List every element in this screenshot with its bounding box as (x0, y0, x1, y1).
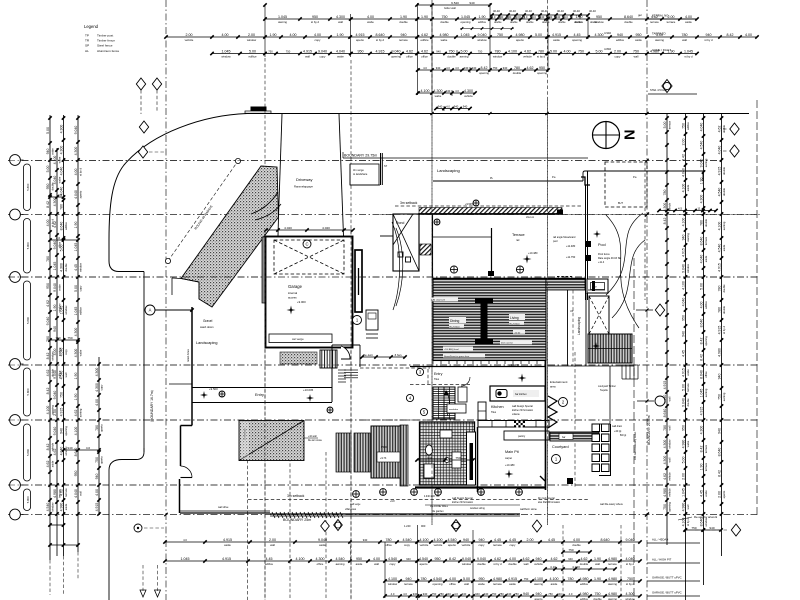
svg-text:Steel fence: Steel fence (97, 44, 113, 48)
svg-text:4.0: 4.0 (86, 446, 91, 450)
svg-text:A: A (149, 308, 152, 313)
svg-text:Entertainment: Entertainment (550, 380, 568, 384)
svg-text:double: double (722, 166, 726, 175)
svg-text:1.240: 1.240 (404, 524, 411, 528)
svg-text:4.100: 4.100 (681, 218, 685, 227)
svg-text:rail angle Museboard: rail angle Museboard (553, 236, 576, 239)
svg-text:750: 750 (59, 392, 63, 398)
grid overlay y160 (8, 160, 722, 162)
svg-text:wabe: wabe (441, 38, 448, 42)
svg-text:750: 750 (691, 526, 696, 530)
svg-text:940: 940 (406, 557, 411, 561)
svg-text:wall: wall (305, 55, 310, 59)
svg-text:4.915: 4.915 (699, 407, 703, 416)
svg-text:Courtyard: Courtyard (552, 445, 569, 449)
svg-text:750: 750 (499, 592, 504, 596)
svg-text:940: 940 (363, 538, 368, 542)
landscaping rot label (577, 317, 581, 335)
svg-text:8.640: 8.640 (59, 222, 63, 231)
svg-text:4.62: 4.62 (523, 557, 530, 561)
svg-text:4.100: 4.100 (434, 538, 443, 542)
svg-text:40-40: 40-40 (509, 9, 516, 13)
svg-text:4.45: 4.45 (548, 538, 555, 542)
bottom dim line y581 (383, 577, 641, 586)
garage east pier (355, 250, 362, 312)
svg-text:4.980: 4.980 (59, 503, 63, 512)
right top labels line2 (652, 32, 666, 36)
svg-text:4.5: 4.5 (678, 207, 683, 211)
svg-text:Rate angle 49.03 SE: Rate angle 49.03 SE (598, 257, 621, 260)
svg-text:GARAGE / BUTT uPVC: GARAGE / BUTT uPVC (652, 576, 682, 580)
svg-text:4.540: 4.540 (433, 577, 442, 581)
right top labels line1 (648, 14, 697, 20)
svg-text:awning: awning (686, 233, 690, 242)
svg-text:aperto: aperto (420, 562, 428, 566)
svg-text:4.00: 4.00 (46, 220, 50, 227)
svg-text:4.62: 4.62 (581, 557, 588, 561)
svg-text:940: 940 (454, 105, 459, 109)
kitchen wall left (477, 427, 479, 492)
svg-text:Gravel: Gravel (203, 319, 213, 323)
driveway left edge (278, 114, 282, 236)
deck open dashes (557, 276, 572, 278)
svg-text:940: 940 (557, 592, 562, 596)
svg-text:5.800: 5.800 (26, 388, 30, 395)
left bench column (478, 402, 486, 420)
svg-text:copy: copy (320, 55, 327, 59)
svg-text:4.00: 4.00 (53, 349, 57, 356)
left dim line x99 (95, 357, 104, 516)
svg-text:wall: wall (524, 562, 529, 566)
bottom left diamond (134, 524, 164, 532)
svg-text:4.100: 4.100 (717, 222, 721, 231)
svg-text:940: 940 (464, 66, 469, 70)
gravel bank hatch (181, 166, 279, 307)
right dim mid row (657, 207, 717, 213)
hatch strip left of bath (400, 425, 408, 486)
right dim line x667 (663, 113, 672, 545)
legend block (84, 24, 119, 53)
grid line A y514 (8, 514, 757, 516)
west wall upper (191, 307, 193, 426)
svg-text:double: double (447, 55, 456, 59)
svg-text:vehicle: vehicle (464, 94, 473, 98)
setout line x351 (350, 60, 352, 600)
svg-text:750: 750 (493, 66, 498, 70)
svg-text:4.040: 4.040 (74, 190, 78, 199)
svg-text:double: double (558, 21, 566, 24)
garage door circle (303, 240, 311, 248)
svg-text:awning: awning (704, 158, 708, 167)
svg-text:Re-Timber: Re-Timber (450, 325, 461, 328)
vertical connector x490 (488, 3, 491, 72)
bottom dim line y596 (383, 592, 641, 600)
verge step (350, 164, 380, 185)
svg-text:1.90: 1.90 (479, 15, 486, 19)
svg-text:940: 940 (717, 428, 721, 434)
setout line x621 bottom (620, 525, 622, 600)
garage stairs paving (280, 352, 317, 364)
svg-text:4.915: 4.915 (717, 263, 721, 272)
svg-text:9.040: 9.040 (53, 427, 57, 436)
svg-text:3m setback: 3m setback (400, 201, 418, 205)
svg-text:4.980: 4.980 (608, 557, 617, 561)
svg-text:aside: aside (509, 582, 516, 586)
svg-text:wall/born stone: wall/born stone (520, 508, 537, 511)
svg-text:750: 750 (497, 33, 503, 37)
svg-text:940: 940 (706, 33, 712, 37)
svg-text:4.0: 4.0 (446, 105, 450, 109)
svg-text:terrace: terrace (64, 488, 68, 497)
setback label bottom (287, 494, 305, 498)
svg-text:950: 950 (356, 557, 362, 561)
svg-text:3 fan: 3 fan (395, 353, 402, 357)
svg-text:940: 940 (540, 15, 545, 19)
porch dim (360, 353, 406, 359)
svg-text:1.90: 1.90 (270, 33, 277, 37)
svg-text:aperto: aperto (99, 424, 103, 432)
svg-text:4.300: 4.300 (699, 195, 703, 204)
svg-text:4.0: 4.0 (58, 193, 63, 197)
svg-text:4.980: 4.980 (580, 592, 589, 596)
svg-text:4.040: 4.040 (699, 123, 703, 132)
svg-text:wall: wall (270, 543, 275, 547)
deck top wall (433, 278, 585, 280)
svg-text:940: 940 (95, 474, 99, 480)
svg-text:office: office (449, 582, 456, 586)
svg-text:8.42: 8.42 (449, 557, 456, 561)
bubble TR (139, 121, 148, 133)
right bottom label rows (647, 538, 700, 597)
east corridor (568, 290, 587, 366)
west wall lower (179, 479, 181, 513)
svg-text:Re-Timber: Re-Timber (510, 322, 521, 325)
black block court (567, 478, 573, 484)
svg-text:4.915: 4.915 (303, 50, 312, 54)
svg-text:aperto: aperto (78, 190, 82, 198)
svg-text:9.040: 9.040 (681, 398, 685, 407)
lgt note (614, 430, 626, 437)
garage outline (266, 237, 353, 348)
svg-text:4.540: 4.540 (59, 371, 63, 380)
svg-text:4.00: 4.00 (222, 33, 229, 37)
top dim line y37 (164, 33, 758, 42)
svg-text:4.0: 4.0 (569, 592, 573, 596)
svg-text:opening: opening (479, 71, 489, 75)
svg-text:940: 940 (536, 592, 542, 596)
svg-text:750: 750 (568, 548, 573, 552)
living label (509, 314, 525, 334)
svg-text:edifice: edifice (78, 307, 82, 315)
svg-text:8.640: 8.640 (624, 15, 633, 19)
svg-text:aside: aside (224, 543, 231, 547)
svg-text:4.040: 4.040 (322, 226, 330, 230)
svg-text:aside: aside (64, 503, 68, 510)
svg-text:internal: internal (288, 291, 298, 295)
svg-text:1.90: 1.90 (337, 33, 344, 37)
svg-text:950: 950 (539, 66, 545, 70)
svg-text:edifice: edifice (64, 222, 68, 230)
svg-text:wall: wall (464, 582, 469, 586)
svg-text:opening: opening (391, 55, 401, 59)
gravel label (200, 319, 214, 329)
svg-text:double: double (590, 21, 598, 24)
bottom diamonds (321, 520, 542, 533)
svg-text:double: double (477, 562, 486, 566)
svg-text:2.00: 2.00 (527, 538, 534, 542)
svg-text:8.640: 8.640 (699, 370, 703, 379)
svg-text:awning: awning (78, 408, 82, 417)
svg-text:wall: wall (595, 562, 600, 566)
svg-text:double: double (686, 398, 690, 407)
grid overlay y365 (8, 364, 760, 366)
svg-text:Pond: Pond (396, 221, 404, 225)
svg-text:4.00: 4.00 (367, 15, 374, 19)
west boundary line (143, 272, 145, 453)
entry label2 (434, 372, 443, 381)
svg-text:4.540: 4.540 (717, 244, 721, 253)
svg-text:pantry: pantry (518, 434, 526, 438)
center small circles (406, 368, 427, 415)
svg-text:wabe: wabe (337, 55, 344, 59)
svg-text:window: window (477, 38, 487, 42)
svg-text:940: 940 (484, 592, 489, 596)
svg-text:opening: opening (704, 336, 708, 346)
svg-text:edifice: edifice (478, 20, 487, 24)
svg-text:4.100: 4.100 (420, 538, 429, 542)
svg-text:wabe: wabe (367, 20, 374, 24)
right dim line x685 (681, 113, 690, 600)
svg-text:750: 750 (442, 15, 448, 19)
terrace step hatch (420, 244, 431, 255)
svg-text:TARRAZO: TARRAZO (652, 32, 666, 36)
right top diamonds (723, 123, 739, 157)
garden line (169, 383, 192, 385)
top small vconnectors (444, 16, 520, 111)
svg-text:9.040: 9.040 (74, 126, 78, 135)
svg-text:terrace: terrace (650, 20, 659, 24)
svg-text:terrace: terrace (608, 562, 617, 566)
setback dashed bottom (248, 499, 590, 501)
garage door arc (341, 346, 350, 359)
svg-text:window: window (462, 562, 472, 566)
svg-text:5.00: 5.00 (59, 245, 63, 252)
right top labels line3 (652, 48, 672, 52)
deck lower ticks (433, 361, 545, 365)
svg-text:edifice: edifice (420, 38, 429, 42)
setback dashed top (395, 205, 583, 207)
svg-text:4.040: 4.040 (572, 565, 580, 569)
svg-text:1.045: 1.045 (684, 50, 693, 54)
svg-text:4.100: 4.100 (296, 557, 305, 561)
grid line D y365 (8, 364, 760, 366)
svg-text:double: double (574, 21, 582, 24)
svg-text:+9.8: +9.8 (390, 501, 395, 503)
bottom connector x385 (384, 542, 386, 598)
svg-text:900: 900 (421, 524, 426, 528)
svg-text:4.62: 4.62 (551, 557, 558, 561)
svg-text:double: double (572, 543, 581, 547)
under wall text rows2 (350, 495, 561, 507)
svg-text:boiler wall: boiler wall (444, 6, 456, 10)
top dim line y53 (210, 50, 698, 59)
svg-text:1.045: 1.045 (74, 243, 78, 252)
svg-text:wall: wall (682, 38, 687, 42)
svg-text:st by d: st by d (311, 20, 320, 24)
svg-text:4.00: 4.00 (509, 557, 516, 561)
svg-text:aperto: aperto (356, 38, 364, 42)
svg-text:9.040: 9.040 (53, 370, 57, 379)
svg-text:1.045: 1.045 (74, 307, 78, 316)
svg-text:940: 940 (709, 526, 714, 530)
svg-text:opening: opening (461, 20, 471, 24)
svg-text:780: 780 (663, 425, 667, 431)
svg-text:780: 780 (699, 220, 703, 226)
svg-text:Tequila: Tequila (600, 389, 608, 392)
svg-text:4.040: 4.040 (53, 176, 57, 185)
svg-text:940: 940 (469, 1, 474, 5)
svg-text:+10 wall: +10 wall (308, 436, 317, 438)
svg-text:office: office (385, 543, 392, 547)
svg-text:4.45: 4.45 (74, 264, 78, 271)
hatch square label (241, 422, 323, 459)
svg-text:copy: copy (390, 562, 397, 566)
shaft xbrace (589, 296, 609, 334)
pool label (593, 230, 621, 264)
grid line G y160 (8, 160, 722, 162)
bath tile block (420, 422, 475, 485)
svg-text:950: 950 (681, 315, 685, 321)
svg-text:opening: opening (667, 502, 671, 512)
svg-text:edifice: edifice (248, 55, 257, 59)
svg-text:750: 750 (286, 50, 291, 54)
left bottom arrows (140, 565, 161, 597)
svg-text:4.0: 4.0 (391, 592, 395, 596)
svg-text:terrace: terrace (704, 462, 708, 471)
kerb corner curve (109, 114, 247, 272)
svg-text:4.62: 4.62 (406, 50, 413, 54)
svg-text:940: 940 (463, 538, 469, 542)
svg-text:tile garden: tile garden (432, 510, 444, 513)
svg-text:750: 750 (67, 336, 72, 340)
svg-text:4.00: 4.00 (314, 33, 321, 37)
svg-text:wabe: wabe (686, 369, 690, 376)
north wall solid (418, 210, 563, 215)
boundary bottom (270, 514, 520, 516)
svg-text:780: 780 (46, 256, 50, 262)
cupboard strip (467, 432, 476, 485)
svg-text:+9.4 BBQ level: +9.4 BBQ level (444, 349, 459, 351)
svg-text:st by d: st by d (493, 562, 502, 566)
svg-text:940: 940 (406, 577, 412, 581)
garage level (287, 300, 307, 315)
grid overlay x265 (264, 230, 266, 600)
svg-text:780: 780 (514, 66, 520, 70)
svg-text:750: 750 (578, 50, 584, 54)
svg-text:9.040: 9.040 (46, 317, 50, 326)
svg-text:4.915: 4.915 (223, 538, 232, 542)
ne corner step (581, 177, 590, 185)
svg-text:40-40: 40-40 (573, 9, 580, 13)
svg-text:4.040: 4.040 (336, 50, 345, 54)
svg-text:car verge: car verge (292, 337, 304, 341)
svg-text:4.040: 4.040 (626, 557, 635, 561)
pond curves (392, 222, 403, 310)
svg-text:9.040: 9.040 (462, 557, 471, 561)
svg-text:awning: awning (722, 392, 726, 401)
svg-text:copy: copy (100, 384, 103, 390)
svg-text:4.915: 4.915 (681, 248, 685, 257)
svg-text:780: 780 (717, 307, 721, 313)
svg-text:5.800: 5.800 (26, 496, 30, 503)
svg-text:wall: wall (78, 491, 82, 496)
svg-text:Main Pit: Main Pit (505, 450, 520, 454)
boundary rot label 1 (633, 431, 637, 460)
svg-text:aside: aside (319, 543, 326, 547)
svg-text:4.0: 4.0 (564, 15, 568, 19)
svg-text:940: 940 (681, 331, 685, 337)
svg-text:wabe: wabe (57, 284, 61, 291)
svg-text:carpet: carpet (505, 457, 512, 460)
svg-text:opening: opening (572, 38, 582, 42)
svg-text:4.300: 4.300 (74, 349, 78, 358)
svg-text:1.90: 1.90 (400, 15, 407, 19)
svg-text:window sizing: window sizing (470, 507, 485, 510)
svg-text:vehicle: vehicle (523, 55, 532, 59)
entry dashed (410, 369, 470, 385)
svg-text:Timber fence: Timber fence (97, 39, 115, 43)
svg-text:4.100: 4.100 (534, 577, 543, 581)
right dim line x703 (699, 113, 708, 585)
landscaping label top (437, 168, 637, 180)
svg-text:aside: aside (50, 460, 54, 467)
svg-text:5.00: 5.00 (681, 384, 685, 391)
svg-text:shut on: shut on (526, 216, 535, 219)
svg-text:780: 780 (421, 577, 427, 581)
svg-text:wall: wall (64, 372, 68, 377)
svg-text:8.42: 8.42 (717, 470, 721, 477)
svg-text:edifice: edifice (580, 582, 589, 586)
left dim line x63 (59, 115, 68, 556)
svg-text:aside: aside (551, 582, 558, 586)
svg-text:4.00: 4.00 (74, 169, 78, 176)
svg-text:CONE / DAH 6: CONE / DAH 6 (652, 48, 672, 52)
svg-text:4.300: 4.300 (74, 328, 78, 337)
garage label (288, 284, 303, 300)
terrace survey3 (434, 219, 440, 225)
svg-text:copy: copy (315, 38, 322, 42)
verge box (350, 153, 388, 185)
svg-text:aside: aside (553, 38, 560, 42)
svg-text:terrace: terrace (704, 444, 708, 453)
svg-text:+9.000: +9.000 (297, 300, 306, 304)
svg-text:780: 780 (95, 425, 99, 431)
boundary offset dashed x634 (633, 258, 635, 600)
svg-text:8.42: 8.42 (727, 33, 734, 37)
svg-text:4.040: 4.040 (74, 489, 78, 498)
svg-text:wall: wall (667, 396, 671, 401)
gravel arc 2 (255, 204, 281, 220)
svg-text:+10.005: +10.005 (303, 388, 314, 392)
svg-text:8.42: 8.42 (46, 388, 50, 395)
svg-text:750: 750 (455, 456, 460, 460)
svg-text:ALL / HIGH PIT: ALL / HIGH PIT (652, 558, 672, 562)
svg-text:vehicle: vehicle (420, 543, 429, 547)
left dim line x57 (53, 148, 62, 556)
svg-text:750: 750 (95, 457, 99, 463)
left grid bubbles (10, 155, 24, 520)
svg-text:bar: bar (562, 436, 566, 439)
